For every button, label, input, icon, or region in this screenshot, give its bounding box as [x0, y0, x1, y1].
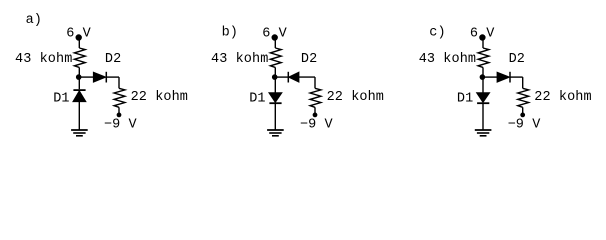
- diode D2 (pointing right) (a): [94, 72, 107, 83]
- wire: junction down to D1 cathode (a): [78, 77, 80, 89]
- wire: +6V node to R1 top (a): [78, 38, 80, 49]
- wire: R2 bottom to -9V node (b): [314, 107, 316, 115]
- circuit c: [419, 26, 592, 136]
- wire: R2 bottom to -9V node (a): [118, 107, 120, 115]
- ground symbol (a): [71, 130, 88, 136]
- wire: D1 anode to ground (a): [78, 101, 80, 129]
- svg-text:b): b): [222, 26, 238, 41]
- ground symbol (c): [475, 130, 492, 136]
- svg-text:c): c): [429, 26, 445, 41]
- wire: D1 cathode to ground (c): [482, 103, 484, 130]
- diode D1 (pointing down) (b): [269, 93, 281, 103]
- node -9V dot (a): [117, 113, 120, 116]
- wire: D2 cathode to corner (a): [106, 76, 119, 78]
- svg-text:−9 V: −9 V: [300, 118, 334, 133]
- resistor 43 kohm (a): [74, 48, 85, 67]
- node +6V dot (b): [272, 35, 277, 40]
- node +6V dot (a): [76, 35, 81, 40]
- wire: junction down to D1 anode (c): [482, 77, 484, 93]
- svg-text:D1: D1: [249, 91, 265, 106]
- svg-text:D1: D1: [457, 91, 473, 106]
- node +6V dot (c): [480, 35, 485, 40]
- svg-text:22 kohm: 22 kohm: [131, 90, 188, 105]
- node -9V dot (c): [521, 113, 524, 116]
- svg-text:D2: D2: [301, 52, 317, 67]
- wire: corner down to R2 top (c): [522, 77, 524, 88]
- wire: D2 anode to corner (b): [299, 76, 315, 78]
- svg-text:43 kohm: 43 kohm: [211, 52, 268, 67]
- svg-text:−9 V: −9 V: [104, 118, 138, 133]
- wire: junction down to D1 anode (b): [274, 77, 276, 93]
- svg-text:a): a): [26, 13, 42, 28]
- svg-text:43 kohm: 43 kohm: [15, 52, 72, 67]
- ground symbol (b): [267, 130, 284, 136]
- junction node dot (c): [480, 75, 484, 79]
- wire: junction to D2 anode (a): [79, 76, 93, 78]
- resistor 43 kohm (c): [478, 48, 489, 67]
- diode D2 (pointing right) (c): [497, 72, 510, 83]
- wire: D2 cathode to corner (c): [510, 76, 523, 78]
- node -9V dot (b): [313, 113, 316, 116]
- wire: R1 bottom to junction (c): [482, 67, 484, 77]
- resistor 22 kohm (c): [518, 88, 529, 107]
- svg-text:D2: D2: [105, 52, 121, 67]
- svg-text:43 kohm: 43 kohm: [419, 52, 476, 67]
- wire: R2 bottom to -9V node (c): [522, 107, 524, 115]
- svg-text:D1: D1: [53, 91, 69, 106]
- wire: R1 bottom to junction (a): [78, 67, 80, 77]
- circuit b: [211, 26, 384, 136]
- resistor 43 kohm (b): [270, 48, 281, 67]
- diode D1 (pointing down) (c): [477, 93, 489, 103]
- wire: +6V node to R1 top (b): [274, 38, 276, 49]
- svg-text:−9 V: −9 V: [508, 118, 542, 133]
- wire: +6V node to R1 top (c): [482, 38, 484, 49]
- wire: D1 cathode to ground (b): [274, 103, 276, 130]
- resistor 22 kohm (a): [114, 88, 125, 107]
- resistor 22 kohm (b): [310, 88, 321, 107]
- wire: junction to D2 cathode (b): [275, 76, 288, 78]
- junction node dot (a): [77, 75, 81, 79]
- junction node dot (b): [273, 75, 277, 79]
- wire: R1 bottom to junction (b): [274, 67, 276, 77]
- svg-text:D2: D2: [509, 52, 525, 67]
- svg-text:22 kohm: 22 kohm: [534, 90, 591, 105]
- wire: corner down to R2 top (b): [314, 77, 316, 88]
- diode D1 (pointing up) (a): [73, 90, 85, 101]
- circuit a: [15, 13, 188, 136]
- wire: junction to D2 anode (c): [483, 76, 497, 78]
- diode D2 (pointing left) (b): [288, 72, 298, 83]
- svg-text:22 kohm: 22 kohm: [327, 90, 384, 105]
- wire: corner down to R2 top (a): [118, 77, 120, 88]
